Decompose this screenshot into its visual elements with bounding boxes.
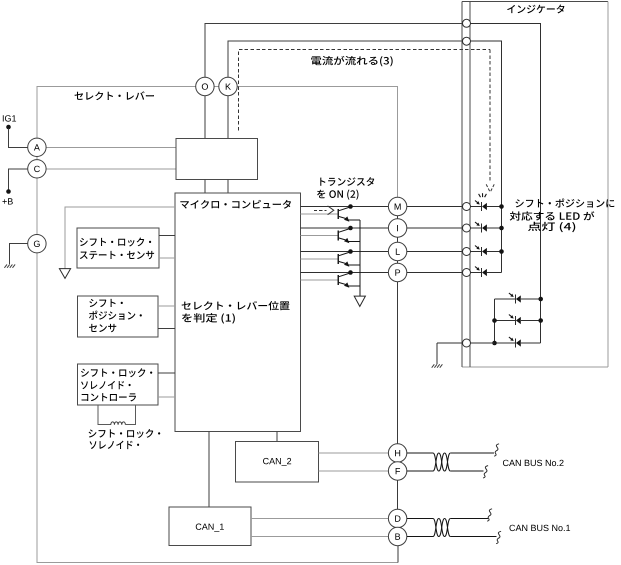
wire: terminal P to indicator pin [407,272,463,274]
twisted pair: CAN bus No.1 [433,519,450,537]
pin: indicator connector (ground) [463,339,471,347]
node: collector junction Q4 [348,270,353,275]
shift lock state sensor box [77,228,159,268]
wire: G to chassis ground [10,244,28,265]
label: CAN BUS No.1 [509,525,570,531]
wire: shared emitter rail [359,220,361,296]
LED D2 (I position) [475,222,487,233]
wire: state sensor to micro (top) [159,235,175,237]
wire: lower LED row 2 [495,320,541,322]
transistor Q4 [338,273,360,288]
node G (terminal) [28,235,46,253]
shift lock solenoid controller box [78,364,159,405]
wire: base drive I from micro [301,234,339,236]
ground: open triangle arrow below micro left wire [59,269,70,279]
ground: chassis ground at G [4,264,15,267]
glow marks: lit LED D1 [479,193,487,197]
label: select lever [75,91,154,100]
wire: C to shift-lock ECU box [46,168,176,170]
wire: A to shift-lock ECU box [46,146,176,148]
node +B [2,169,27,205]
wire: D to CAN bus 1 high [407,518,488,520]
node: LED column junction L [499,249,504,254]
wire: micro to CAN_1 [208,432,210,507]
wire: CAN_1 to D [251,518,389,520]
pin: indicator connector (K) [463,37,471,45]
wire: position sensor to micro (bottom) [158,327,175,329]
wire: dashed base-drive arrow (transistor ON) [314,206,334,215]
wire: B to CAN bus 1 low [407,536,497,538]
label: LED for shift position lights (4) [510,198,615,232]
wire: terminal L to indicator pin [407,251,463,253]
ground: emitter open triangle [354,296,365,306]
ground: indicator ground [432,364,443,367]
wire: lower LED row 1 [495,298,541,300]
wire: micro output to terminal P (collector row) [301,272,389,274]
CAN_2 box [236,441,319,482]
wire: O terminal down to shift lock ECU box [204,95,206,138]
label: judge select lever position (1) [182,301,290,324]
wire: lower LED row 3 [495,342,541,344]
LED D7 (illumination group) [509,337,521,348]
wire: CAN_2 to F [319,470,389,472]
node L (terminal) [388,242,406,260]
wire: CAN_1 to B [251,536,389,538]
node O (terminal) [196,77,214,95]
wire: state sensor to micro (bottom) [159,257,175,259]
label: CAN BUS No.2 [503,460,564,466]
wire: relay box to microcomputer (left) [204,180,206,194]
break symbol: CAN2 low [483,466,488,478]
label: current flows (3) [311,56,392,67]
wire: relay box to microcomputer (right) [227,180,229,194]
node: LED column junction M [499,204,504,209]
pin: indicator connector (L) [463,248,471,256]
node IG1 [3,115,28,147]
label: transistor ON (2) [317,177,374,200]
label: shift lock solenoid [89,429,161,449]
label: microcomputer [180,200,291,209]
wire: dashed current-flow path (3) [239,50,491,131]
op-amp U1: microcomputer box [175,193,301,431]
wire: micro to CAN_2 [276,432,278,442]
node: LED column junction I [499,226,504,231]
pin: indicator connector (M) [463,203,471,211]
shift position sensor box [78,296,159,337]
CAN_1 box [169,507,251,546]
connector strip: indicator left edge [462,2,470,367]
wire: lower LED group left rail [494,299,496,343]
node B (terminal) [388,527,406,545]
LED D1 (M position) [475,201,487,212]
node I (terminal) [388,219,406,237]
node: collector junction Q1 [348,204,353,209]
wire: indicator rail from K to LED column [470,41,501,272]
wire: terminal I to indicator pin [407,227,463,229]
LED D6 (illumination group) [509,315,521,326]
node M (terminal) [388,197,406,215]
wire: H to CAN bus 2 high [407,452,494,454]
wire: F to CAN bus 2 low [407,470,484,472]
break symbol: CAN2 high [494,444,499,456]
wire: indicator pin row I [470,227,501,229]
wire: terminal chain M-I-L-P down to H,F,D,B [397,198,399,547]
node: collector junction Q3 [348,249,353,254]
relay box (shift lock ECU input stage, unlabeled) [176,139,257,180]
LED D4 (P position) [475,267,487,278]
node P (terminal) [388,263,406,281]
wire: indicator supply rail from O [470,23,541,343]
node C (terminal) [28,160,46,178]
LED D3 (L position) [475,246,487,257]
wire: terminal M to indicator pin [407,206,463,208]
wire: CAN_2 to H [319,452,389,454]
wire: ECU outer loop (select lever supply and return) [37,87,398,563]
wire: microcomputer left to open arrow [65,207,175,269]
wire: K terminal to indicator pin [228,41,462,78]
node H (terminal) [388,444,406,462]
wire: solenoid controller to micro (bottom) [158,396,175,398]
wire: position sensor to micro (top) [158,305,175,307]
pin: indicator connector (P) [463,269,471,277]
wire: base drive P from micro [301,279,339,281]
wire: solenoid controller to micro (top) [158,372,175,374]
wire: indicator pin row M [470,206,501,208]
wire: base drive L from micro [301,258,339,260]
pin: indicator connector (I) [463,224,471,232]
break symbol: CAN1 high [487,509,492,521]
transistor Q1 [338,207,360,222]
node K (terminal) [219,77,237,95]
wire: K terminal down to shift lock ECU box [227,95,229,138]
node A (terminal) [28,138,46,156]
inductor L1: shift lock solenoid coil [98,405,136,425]
wire: micro output to terminal L (collector row) [301,251,389,253]
node D (terminal) [388,509,406,527]
wire: micro output to terminal M (collector row) [301,206,389,208]
twisted pair: CAN bus No.2 [433,453,450,471]
break symbol: CAN1 low [496,531,501,543]
wire: indicator pin row P [470,272,501,274]
LED D5 (illumination group) [509,293,521,304]
node: lower LED junctions [492,297,543,346]
indicator housing box [462,2,608,367]
label: indicator [507,5,564,14]
wire: base drive M from micro [301,213,339,215]
transistor Q2 [338,228,360,243]
wire: micro output to terminal I (collector row) [301,227,389,229]
wire: O terminal to indicator pin [205,23,463,78]
wire: lower LED group to ground pin [437,343,495,364]
node F (terminal) [388,462,406,480]
node: collector junction Q2 [348,226,353,231]
wire: indicator pin row L [470,251,501,253]
pin: indicator connector (O) [463,19,471,27]
wire: dashed arrow into indicator LED [486,50,494,193]
transistor Q3 [338,252,360,267]
